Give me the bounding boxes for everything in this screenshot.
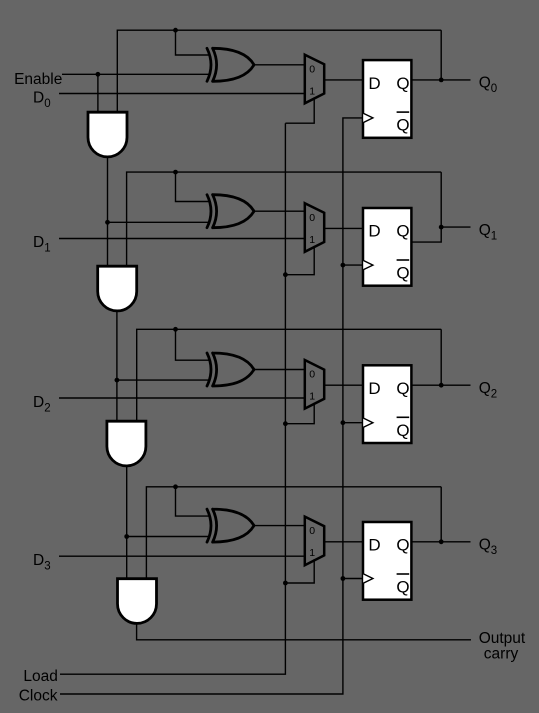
D flip-flop FF3 <box>363 522 411 600</box>
svg-text:D: D <box>368 379 380 398</box>
junction: stage 3 top rail / XOR branch <box>173 484 178 489</box>
wire: AND2 output down the carry chain <box>126 466 128 579</box>
wire: Clock line and Clock bus <box>60 118 363 694</box>
D flip-flop FF2 <box>363 365 411 443</box>
wire: clock branch to FF3 <box>343 578 363 580</box>
svg-text:D0: D0 <box>33 89 51 110</box>
svg-text:1: 1 <box>309 85 315 97</box>
FF2 clock pin triangle <box>363 418 373 427</box>
wire: Enable line to XOR0 lower input <box>62 73 210 75</box>
svg-text:0: 0 <box>309 369 315 381</box>
wire: MUX0 select down to Load bus <box>285 97 314 123</box>
junction: Q3 output / feedback <box>439 539 444 544</box>
svg-text:D: D <box>368 536 380 555</box>
junction: Clock bus / FF1 <box>341 263 346 268</box>
wire: D0 input line to MUX0 input 1 <box>59 93 305 95</box>
D flip-flop FF1 <box>363 208 411 286</box>
svg-text:Clock: Clock <box>19 688 58 705</box>
svg-text:Enable: Enable <box>14 71 62 88</box>
svg-text:Q1: Q1 <box>479 222 497 243</box>
junction: Clock bus / FF2 <box>341 420 346 425</box>
svg-text:Output: Output <box>479 630 526 647</box>
wire: MUX2 select down to Load bus <box>285 403 314 424</box>
junction: carry chain / XOR1 branch <box>105 220 110 225</box>
svg-text:Q: Q <box>396 116 409 135</box>
wire: stage 1 branch from top rail to XOR input <box>176 172 211 201</box>
wire: XOR0 output to MUX0 input 0 <box>253 64 305 66</box>
junction: stage 1 top rail / XOR branch <box>173 170 178 175</box>
svg-text:D: D <box>368 222 380 241</box>
svg-text:Q: Q <box>396 264 409 283</box>
wire: MUX3 output to FF3 D input <box>324 541 363 543</box>
wire: XOR2 output to MUX2 input 0 <box>253 369 305 371</box>
svg-text:Q: Q <box>396 536 409 555</box>
D flip-flop FF0 <box>363 60 411 138</box>
svg-text:carry: carry <box>484 646 519 663</box>
FF3 clock pin triangle <box>363 574 373 583</box>
wire: D1 input line to MUX1 input 1 <box>59 238 305 240</box>
junction: carry chain / XOR3 branch <box>124 534 129 539</box>
wire: MUX3 select down to Load bus <box>285 559 314 583</box>
svg-text:Q2: Q2 <box>479 380 497 401</box>
FF0 clock pin triangle <box>363 113 373 122</box>
AND gate stage 1 (carry chain) <box>98 266 137 311</box>
junction: Load bus / MUX2 select <box>283 421 288 426</box>
svg-text:D: D <box>368 74 380 93</box>
wire: AND1 output down the carry chain <box>116 311 118 421</box>
junction: Q0 output / feedback <box>439 78 444 83</box>
svg-text:Q: Q <box>396 578 409 597</box>
junction: Clock bus / FF3 <box>341 576 346 581</box>
wire: AND3 output to Output carry <box>137 623 471 639</box>
wire: XOR1 output to MUX1 input 0 <box>253 210 305 212</box>
svg-text:Q: Q <box>396 222 409 241</box>
FF1 clock pin triangle <box>363 260 373 269</box>
wire: stage 3 Q feedback top rail <box>146 487 441 579</box>
svg-text:0: 0 <box>309 525 315 537</box>
wire: MUX1 select down to Load bus <box>285 246 314 275</box>
svg-text:Load: Load <box>23 668 57 685</box>
wire: stage 2 Q feedback top rail <box>137 329 442 421</box>
wire: D3 input line to MUX3 input 1 <box>59 555 305 557</box>
wire: MUX1 output to FF1 D input <box>324 227 363 229</box>
svg-text:D2: D2 <box>33 394 51 415</box>
junction: Load bus / MUX3 select <box>283 581 288 586</box>
svg-text:D1: D1 <box>33 234 51 255</box>
junction: carry chain / XOR2 branch <box>115 378 120 383</box>
XOR gate stage 0 <box>207 48 254 81</box>
svg-text:1: 1 <box>309 234 315 246</box>
wire: stage 3 branch from top rail to XOR input <box>176 487 211 516</box>
junction: stage 0 top rail / XOR branch <box>173 28 178 33</box>
wire: FF2 Q output to Q2 label <box>411 384 471 386</box>
wire: stage 2 branch from top rail to XOR input <box>176 329 211 360</box>
junction: Load bus / MUX1 select <box>283 272 288 277</box>
wire: stage 3 feedback vertical to Q node <box>440 487 442 542</box>
junction: Q2 output / feedback <box>439 383 444 388</box>
wire: stage 0 branch from top rail to XOR input <box>176 30 211 55</box>
wire: stage 1 Q feedback top rail <box>127 172 442 266</box>
wire: Enable branch down to AND0 left input <box>97 74 99 112</box>
svg-text:Q: Q <box>396 74 409 93</box>
wire: stage 1 feedback vertical to Q node <box>440 172 442 227</box>
XOR gate stage 1 <box>207 195 254 228</box>
wire: carry chain branch to XOR3 lower input <box>127 536 210 538</box>
svg-text:Q: Q <box>396 379 409 398</box>
wire: stage 0 Q feedback top rail <box>117 30 441 112</box>
wire: Load line and Load bus <box>60 123 285 674</box>
junction: stage 2 top rail / XOR branch <box>173 327 178 332</box>
wire: MUX2 output to FF2 D input <box>324 384 363 386</box>
wire: stage 2 feedback vertical to Q node <box>440 329 442 385</box>
svg-text:1: 1 <box>309 391 315 403</box>
XOR gate stage 2 <box>207 353 254 386</box>
AND gate stage 2 (carry chain) <box>107 421 146 466</box>
wire: carry chain branch to XOR2 lower input <box>117 379 210 381</box>
svg-text:0: 0 <box>309 63 315 75</box>
XOR gate stage 3 <box>207 509 254 542</box>
svg-text:Q: Q <box>396 421 409 440</box>
wire: MUX0 output to FF0 D input <box>324 79 363 81</box>
svg-text:Q0: Q0 <box>479 75 497 96</box>
wire: FF3 Q output to Q3 label <box>411 541 471 543</box>
wire: clock branch to FF1 <box>343 264 363 266</box>
svg-text:D3: D3 <box>33 552 51 573</box>
AND gate stage 3 (carry chain) <box>118 579 157 624</box>
wire: FF0 Q output to Q0 label <box>411 79 471 81</box>
svg-text:0: 0 <box>309 212 315 224</box>
wire: carry chain branch to XOR1 lower input <box>108 221 211 223</box>
junction: Q1 output / feedback <box>439 225 444 230</box>
wire: AND0 output down the carry chain <box>107 157 109 266</box>
svg-text:Q3: Q3 <box>479 537 497 558</box>
multiplexer MUX0 (2-to-1) <box>305 55 324 104</box>
AND gate stage 0 (carry chain) <box>88 112 127 157</box>
junction: Enable / AND0 branch <box>96 72 101 77</box>
wire: stage 0 feedback vertical to Q node <box>440 30 442 80</box>
multiplexer MUX1 (2-to-1) <box>305 203 324 252</box>
wire: D2 input line to MUX2 input 1 <box>59 397 305 399</box>
wire: clock branch to FF2 <box>343 422 363 424</box>
multiplexer MUX3 (2-to-1) <box>305 517 324 566</box>
multiplexer MUX2 (2-to-1) <box>305 360 324 409</box>
svg-text:1: 1 <box>309 547 315 559</box>
wire: XOR3 output to MUX3 input 0 <box>253 525 305 527</box>
wire: FF1 Q output jog to Q1 node <box>411 227 441 242</box>
wire: Q1 node to output label <box>441 226 470 228</box>
